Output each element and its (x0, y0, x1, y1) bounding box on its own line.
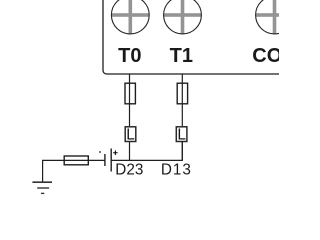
svg-text:D13: D13 (161, 161, 192, 178)
wire bottom right segment (111, 141, 182, 160)
svg-text:L: L (126, 127, 135, 144)
screw terminal T0 (111, 0, 150, 35)
wire ground riser and bottom left segment (43, 160, 105, 182)
wire T0 branch vertical (129, 74, 131, 160)
terminal block outline (103, 0, 280, 74)
fuse F2 (T1 branch) (177, 83, 187, 104)
svg-text:COM: COM (252, 45, 279, 67)
svg-text:D23: D23 (115, 161, 143, 178)
fuse F3 (bottom horizontal) (64, 156, 88, 165)
battery BT1 (99, 149, 118, 172)
screw terminal COM (255, 0, 294, 35)
ground (32, 182, 52, 193)
screw terminal T1 (163, 0, 202, 35)
fuse F1 (T0 branch) (125, 83, 135, 104)
svg-text:T1: T1 (170, 45, 193, 67)
lamp L (T0 branch) (125, 127, 136, 144)
lamp L (T1 branch) (176, 127, 187, 144)
svg-text:T0: T0 (118, 45, 141, 67)
wire T1 branch vertical (181, 74, 183, 160)
